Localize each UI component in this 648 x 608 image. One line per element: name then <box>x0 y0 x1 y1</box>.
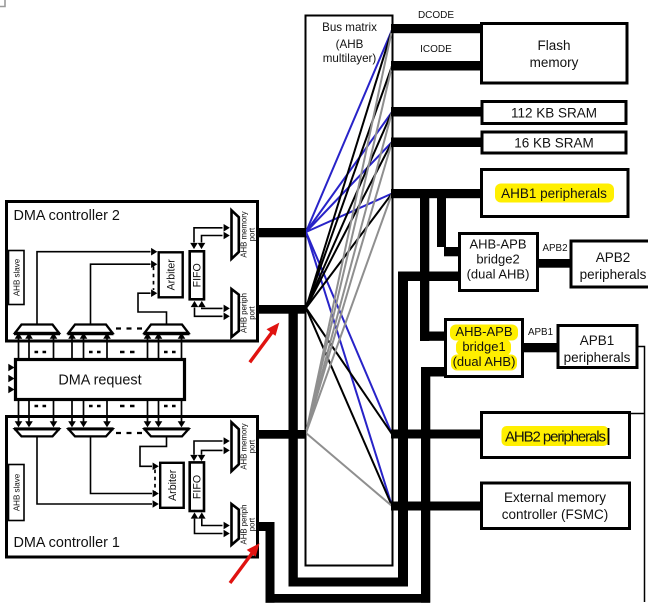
svg-text:memory: memory <box>530 55 579 70</box>
block AHB1 peripherals <box>482 170 629 217</box>
svg-text:port: port <box>248 439 257 453</box>
wire blue N1-DCODE <box>306 30 392 232</box>
svg-text:AHB slave: AHB slave <box>13 258 22 296</box>
block 16 KB SRAM <box>482 132 626 153</box>
wire dashes group3 <box>164 351 177 354</box>
annotation red arrow to DMA2 periph port <box>250 332 273 363</box>
bus SRAM16 bar <box>391 138 481 148</box>
wire mux feed lines DMA2 group3 <box>148 339 182 360</box>
svg-text:AHB2 peripherals: AHB2 peripherals <box>505 429 606 446</box>
block FIFO (DMA2) <box>190 251 204 299</box>
wire mux feed lines DMA2 group1 <box>19 339 54 360</box>
wire black N2-AHB1 <box>306 194 392 309</box>
block Arbiter (DMA1) <box>160 463 184 508</box>
wire APB2 bar <box>537 259 571 268</box>
wire request lines to DMA1 group3 <box>148 400 182 420</box>
port AHB memory port (DMA1) <box>232 422 239 471</box>
port AHB periph port (DMA1) <box>232 504 239 545</box>
port AHB memory port (DMA2) <box>232 210 239 259</box>
mux request-mux 1.2 <box>69 429 113 436</box>
wire blue N1-AHB2 <box>306 232 392 434</box>
svg-text:Bus matrix: Bus matrix <box>322 21 377 34</box>
svg-text:APB2: APB2 <box>596 250 631 265</box>
svg-text:Flash: Flash <box>537 38 570 53</box>
wire black N2-SRAM112 <box>306 112 392 308</box>
wire request lines to DMA1 group2 <box>72 400 107 420</box>
annotation red arrow to DMA1 periph port <box>230 552 253 583</box>
wire dashes below group2 <box>89 405 102 408</box>
wire blue N1-FSMC <box>306 232 392 506</box>
wire outer right vertical bar to bridge1-lower <box>421 367 430 603</box>
wire inner bottom bar <box>289 578 409 587</box>
svg-text:DMA controller 1: DMA controller 1 <box>14 535 120 551</box>
wire mux2.3 to arbiter <box>138 293 167 324</box>
svg-text:APB1: APB1 <box>580 333 615 348</box>
wire gray N3-SRAM112 <box>306 112 392 433</box>
wire gray N3-AHB1 <box>306 194 392 434</box>
mux request-mux 2.2 <box>69 325 113 334</box>
wire bar A DMA1-periph vertical <box>266 522 275 603</box>
svg-text:DMA controller 2: DMA controller 2 <box>14 208 120 224</box>
block 112 KB SRAM <box>482 102 626 124</box>
svg-text:AHB-APB: AHB-APB <box>455 324 512 339</box>
svg-text:Arbiter: Arbiter <box>167 469 179 501</box>
svg-text:(dual AHB): (dual AHB) <box>467 267 530 282</box>
wire black N2-DCODE <box>306 30 392 308</box>
wire mux feed lines DMA2 group2 <box>72 339 107 360</box>
mux request-mux 1.1 <box>15 429 59 436</box>
wire dashes center gap <box>120 351 140 354</box>
wire black N2-FSMC <box>306 308 392 506</box>
bus AHB2 bar <box>391 430 480 439</box>
wire mux1.2 to arbiter <box>91 436 153 493</box>
wire dashed request ellipsis into arbiter <box>153 267 155 291</box>
wire DMA2 memory-port bar <box>258 228 306 237</box>
svg-text:16 KB SRAM: 16 KB SRAM <box>514 136 594 151</box>
wire DMA2 periph-port bar <box>258 305 306 314</box>
wire dashes between mux 2.2 and 2.3 <box>116 327 142 329</box>
wire request lines to DMA1 group1 <box>19 400 54 420</box>
wire dashed request ellipsis into arbiter (DMA1) <box>154 470 156 492</box>
bus SRAM112 bar <box>391 107 481 117</box>
block AHB slave (DMA1) <box>9 465 25 521</box>
wire FIFO-to-memory-port B <box>202 236 223 243</box>
wire dashes below group3 <box>164 405 177 408</box>
wire FIFO1-to-periph-port C <box>191 512 199 518</box>
wire bar2 AHB1-to-bridge2 upper <box>437 198 446 247</box>
svg-text:External memory: External memory <box>504 490 606 505</box>
wire FIFO1-to-memory-port A <box>194 441 223 455</box>
corner crop mark <box>0 0 5 7</box>
wire request feed arrowheads into DMA1 muxes <box>19 415 182 422</box>
wire dashes between mux 1.2 and 1.3 <box>116 432 142 434</box>
block DMA request <box>16 360 185 400</box>
svg-text:112 KB SRAM: 112 KB SRAM <box>511 106 597 121</box>
svg-text:bridge2: bridge2 <box>476 252 519 267</box>
svg-text:port: port <box>248 227 257 241</box>
wire gray N3-SRAM16 <box>306 142 392 433</box>
svg-text:peripherals: peripherals <box>564 350 631 365</box>
bus FSMC bar <box>391 502 480 511</box>
wire mux1.3 to arbiter <box>140 436 167 466</box>
wire gray N3-FSMC <box>306 433 392 506</box>
wire mux2.1 to arbiter <box>37 252 151 325</box>
wire mux2.2 to arbiter <box>91 264 151 324</box>
wire bar1 AHB1-to-bridge1 upper <box>420 198 429 341</box>
svg-text:APB2: APB2 <box>542 243 567 254</box>
wire FIFO-to-memory-port A <box>194 228 223 243</box>
bus ICODE bar <box>391 61 481 71</box>
block FIFO (DMA1) <box>190 462 204 511</box>
svg-text:multilayer): multilayer) <box>323 52 377 65</box>
svg-text:DCODE: DCODE <box>418 10 454 21</box>
svg-text:AHB1 peripherals: AHB1 peripherals <box>501 186 607 201</box>
wire FIFO-to-periph-port D <box>198 301 206 307</box>
wire thin right link APB1/AHB2 <box>631 347 645 603</box>
block External memory controller FSMC <box>482 483 630 529</box>
wire APB1 bar <box>522 343 557 352</box>
svg-text:APB1: APB1 <box>528 327 553 338</box>
wire black N2-ICODE <box>306 66 392 308</box>
wire blue N1-SRAM16 <box>306 142 392 232</box>
wire blue N1-AHB1 <box>306 194 392 233</box>
mux request-mux 2.3 <box>145 325 189 334</box>
svg-text:peripherals: peripherals <box>580 267 647 282</box>
wire FIFO-to-periph-port C <box>191 301 199 307</box>
wire bar B DMA2-periph vertical <box>289 306 298 587</box>
svg-text:(AHB: (AHB <box>336 38 364 51</box>
block AHB slave (DMA2) <box>9 251 25 305</box>
svg-text:Arbiter: Arbiter <box>166 259 178 291</box>
wire DMA1 periph-port bar <box>258 522 275 531</box>
block APB2 peripherals <box>571 241 648 287</box>
block APB1 peripherals <box>558 326 637 368</box>
port AHB periph port (DMA2) <box>232 289 239 337</box>
wire spine bridge2-lower stub <box>398 272 459 282</box>
block AHB2 peripherals <box>482 413 630 458</box>
svg-text:controller (FSMC): controller (FSMC) <box>502 507 609 522</box>
block AHB-APB bridge2 <box>460 234 538 291</box>
wire FIFO1-to-memory-port B <box>202 450 223 454</box>
wire gray N3-ICODE <box>306 66 392 433</box>
svg-text:AHB-APB: AHB-APB <box>469 237 526 252</box>
svg-text:FIFO: FIFO <box>192 263 204 287</box>
wire FIFO1-to-periph-port D <box>198 512 206 518</box>
mux request-mux 1.3 <box>145 429 189 436</box>
svg-text:port: port <box>248 517 257 531</box>
svg-text:AHB slave: AHB slave <box>13 473 22 511</box>
wire DMA1 memory-port bar <box>258 430 306 439</box>
block DMA controller 2 <box>7 202 258 342</box>
svg-text:ICODE: ICODE <box>420 44 452 55</box>
wire dashes below group1 <box>35 405 49 408</box>
wire mux1.1 to arbiter <box>37 436 152 504</box>
block AHB-APB bridge1 <box>446 320 523 377</box>
wire gray N3-DCODE <box>306 30 392 433</box>
wire black N2-SRAM16 <box>306 142 392 308</box>
bus-matrix block U_BM <box>306 16 393 566</box>
svg-text:port: port <box>248 305 257 319</box>
wire blue N1-SRAM112 <box>306 112 392 232</box>
svg-text:FIFO: FIFO <box>192 475 204 499</box>
mux request-mux 2.1 <box>15 325 59 334</box>
wire peripheral request arrows into DMA request <box>8 364 14 372</box>
wire outer bottom bar <box>266 594 431 603</box>
bus DCODE bar <box>391 24 481 33</box>
wire dashes below center gap <box>120 405 140 408</box>
block DMA controller 1 <box>7 417 258 558</box>
wire dashes group1 <box>35 351 49 354</box>
wire spine vertical <box>398 272 408 587</box>
svg-text:(dual AHB): (dual AHB) <box>453 354 516 369</box>
bus AHB1 bar <box>391 189 480 198</box>
wire black N2-AHB2 <box>306 308 392 434</box>
block Flash memory <box>482 24 628 84</box>
block Arbiter (DMA2) <box>159 252 183 297</box>
svg-text:bridge1: bridge1 <box>462 339 505 354</box>
wire dashes group2 <box>89 351 102 354</box>
svg-text:DMA request: DMA request <box>58 373 141 389</box>
